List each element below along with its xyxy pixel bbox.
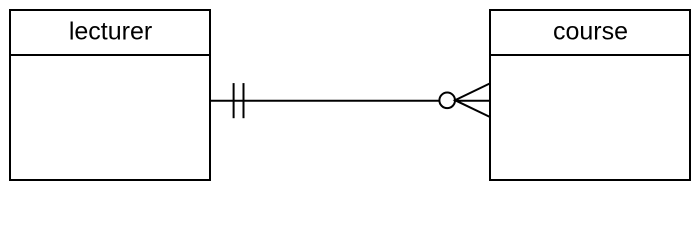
wire relationship line [210,100,440,102]
entity course title separator [490,54,690,56]
svg-text:lecturer: lecturer [69,18,152,46]
entity lecturer box [10,10,210,180]
entity course box [490,10,690,180]
svg-text:course: course [553,18,628,46]
one cardinality tick mark 1 [233,83,235,118]
crow's foot many marker [455,83,490,117]
zero optionality circle [439,93,455,109]
entity lecturer title separator [10,54,210,56]
one cardinality tick mark 2 [243,83,245,118]
